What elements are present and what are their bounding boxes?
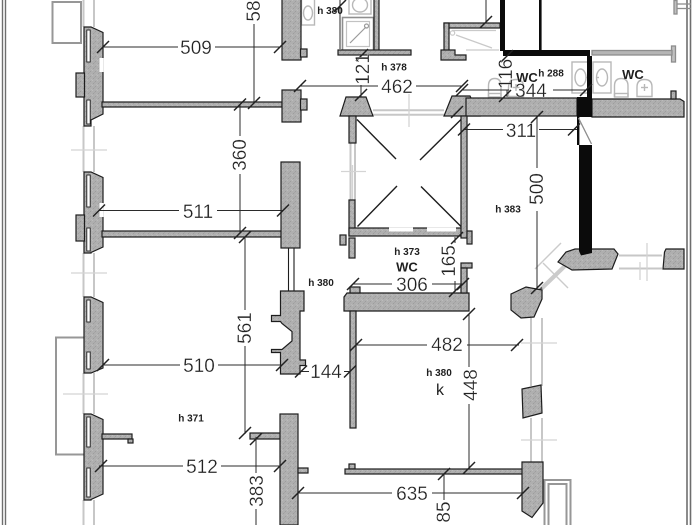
svg-text:WC: WC <box>622 67 644 82</box>
svg-text:511: 511 <box>183 202 213 223</box>
svg-text:144: 144 <box>310 362 342 383</box>
svg-text:311: 311 <box>506 121 536 142</box>
svg-text:383: 383 <box>247 475 268 507</box>
svg-text:116: 116 <box>496 59 517 89</box>
svg-text:WC: WC <box>516 70 538 85</box>
svg-text:h 371: h 371 <box>178 414 204 425</box>
svg-text:500: 500 <box>527 173 548 205</box>
svg-text:360: 360 <box>230 139 251 171</box>
svg-text:WC: WC <box>396 260 418 275</box>
svg-text:561: 561 <box>235 312 256 344</box>
svg-text:635: 635 <box>396 484 428 505</box>
svg-text:h 383: h 383 <box>495 205 521 216</box>
svg-text:121: 121 <box>353 53 374 85</box>
svg-text:509: 509 <box>180 38 212 59</box>
svg-text:h 288: h 288 <box>538 69 564 80</box>
svg-text:h 380: h 380 <box>426 368 452 379</box>
svg-text:165: 165 <box>439 245 460 277</box>
svg-text:482: 482 <box>431 335 463 356</box>
svg-text:85: 85 <box>434 501 455 522</box>
svg-text:k: k <box>436 382 445 399</box>
svg-text:h 378: h 378 <box>381 63 407 74</box>
svg-text:512: 512 <box>186 457 218 478</box>
svg-text:h 380: h 380 <box>308 278 334 289</box>
svg-text:h 373: h 373 <box>394 247 420 258</box>
svg-text:58: 58 <box>244 0 265 21</box>
svg-text:h 380: h 380 <box>317 6 343 17</box>
svg-text:448: 448 <box>461 369 482 401</box>
svg-text:462: 462 <box>381 77 413 98</box>
svg-text:306: 306 <box>396 275 428 296</box>
svg-text:510: 510 <box>183 356 215 377</box>
